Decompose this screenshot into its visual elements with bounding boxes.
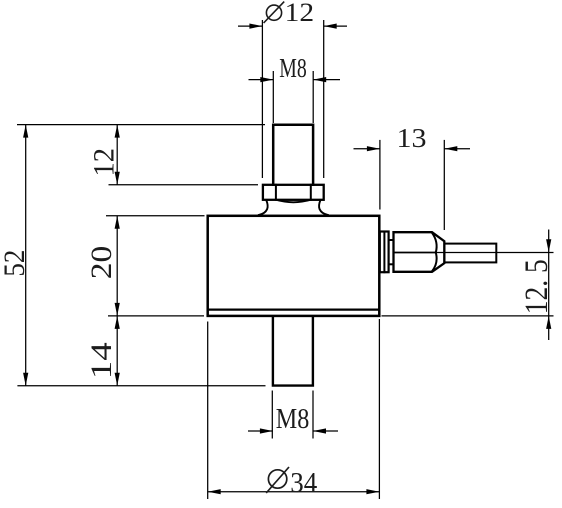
svg-text:M8: M8 — [276, 404, 310, 435]
svg-text:12: 12 — [285, 0, 315, 27]
svg-text:52: 52 — [0, 250, 31, 277]
svg-text:12: 12 — [88, 148, 120, 177]
svg-text:20: 20 — [86, 246, 118, 280]
svg-text:14: 14 — [86, 342, 118, 379]
svg-text:34: 34 — [290, 467, 317, 499]
svg-text:13: 13 — [397, 123, 427, 153]
svg-text:M8: M8 — [279, 53, 307, 83]
svg-text:12. 5: 12. 5 — [519, 259, 555, 314]
